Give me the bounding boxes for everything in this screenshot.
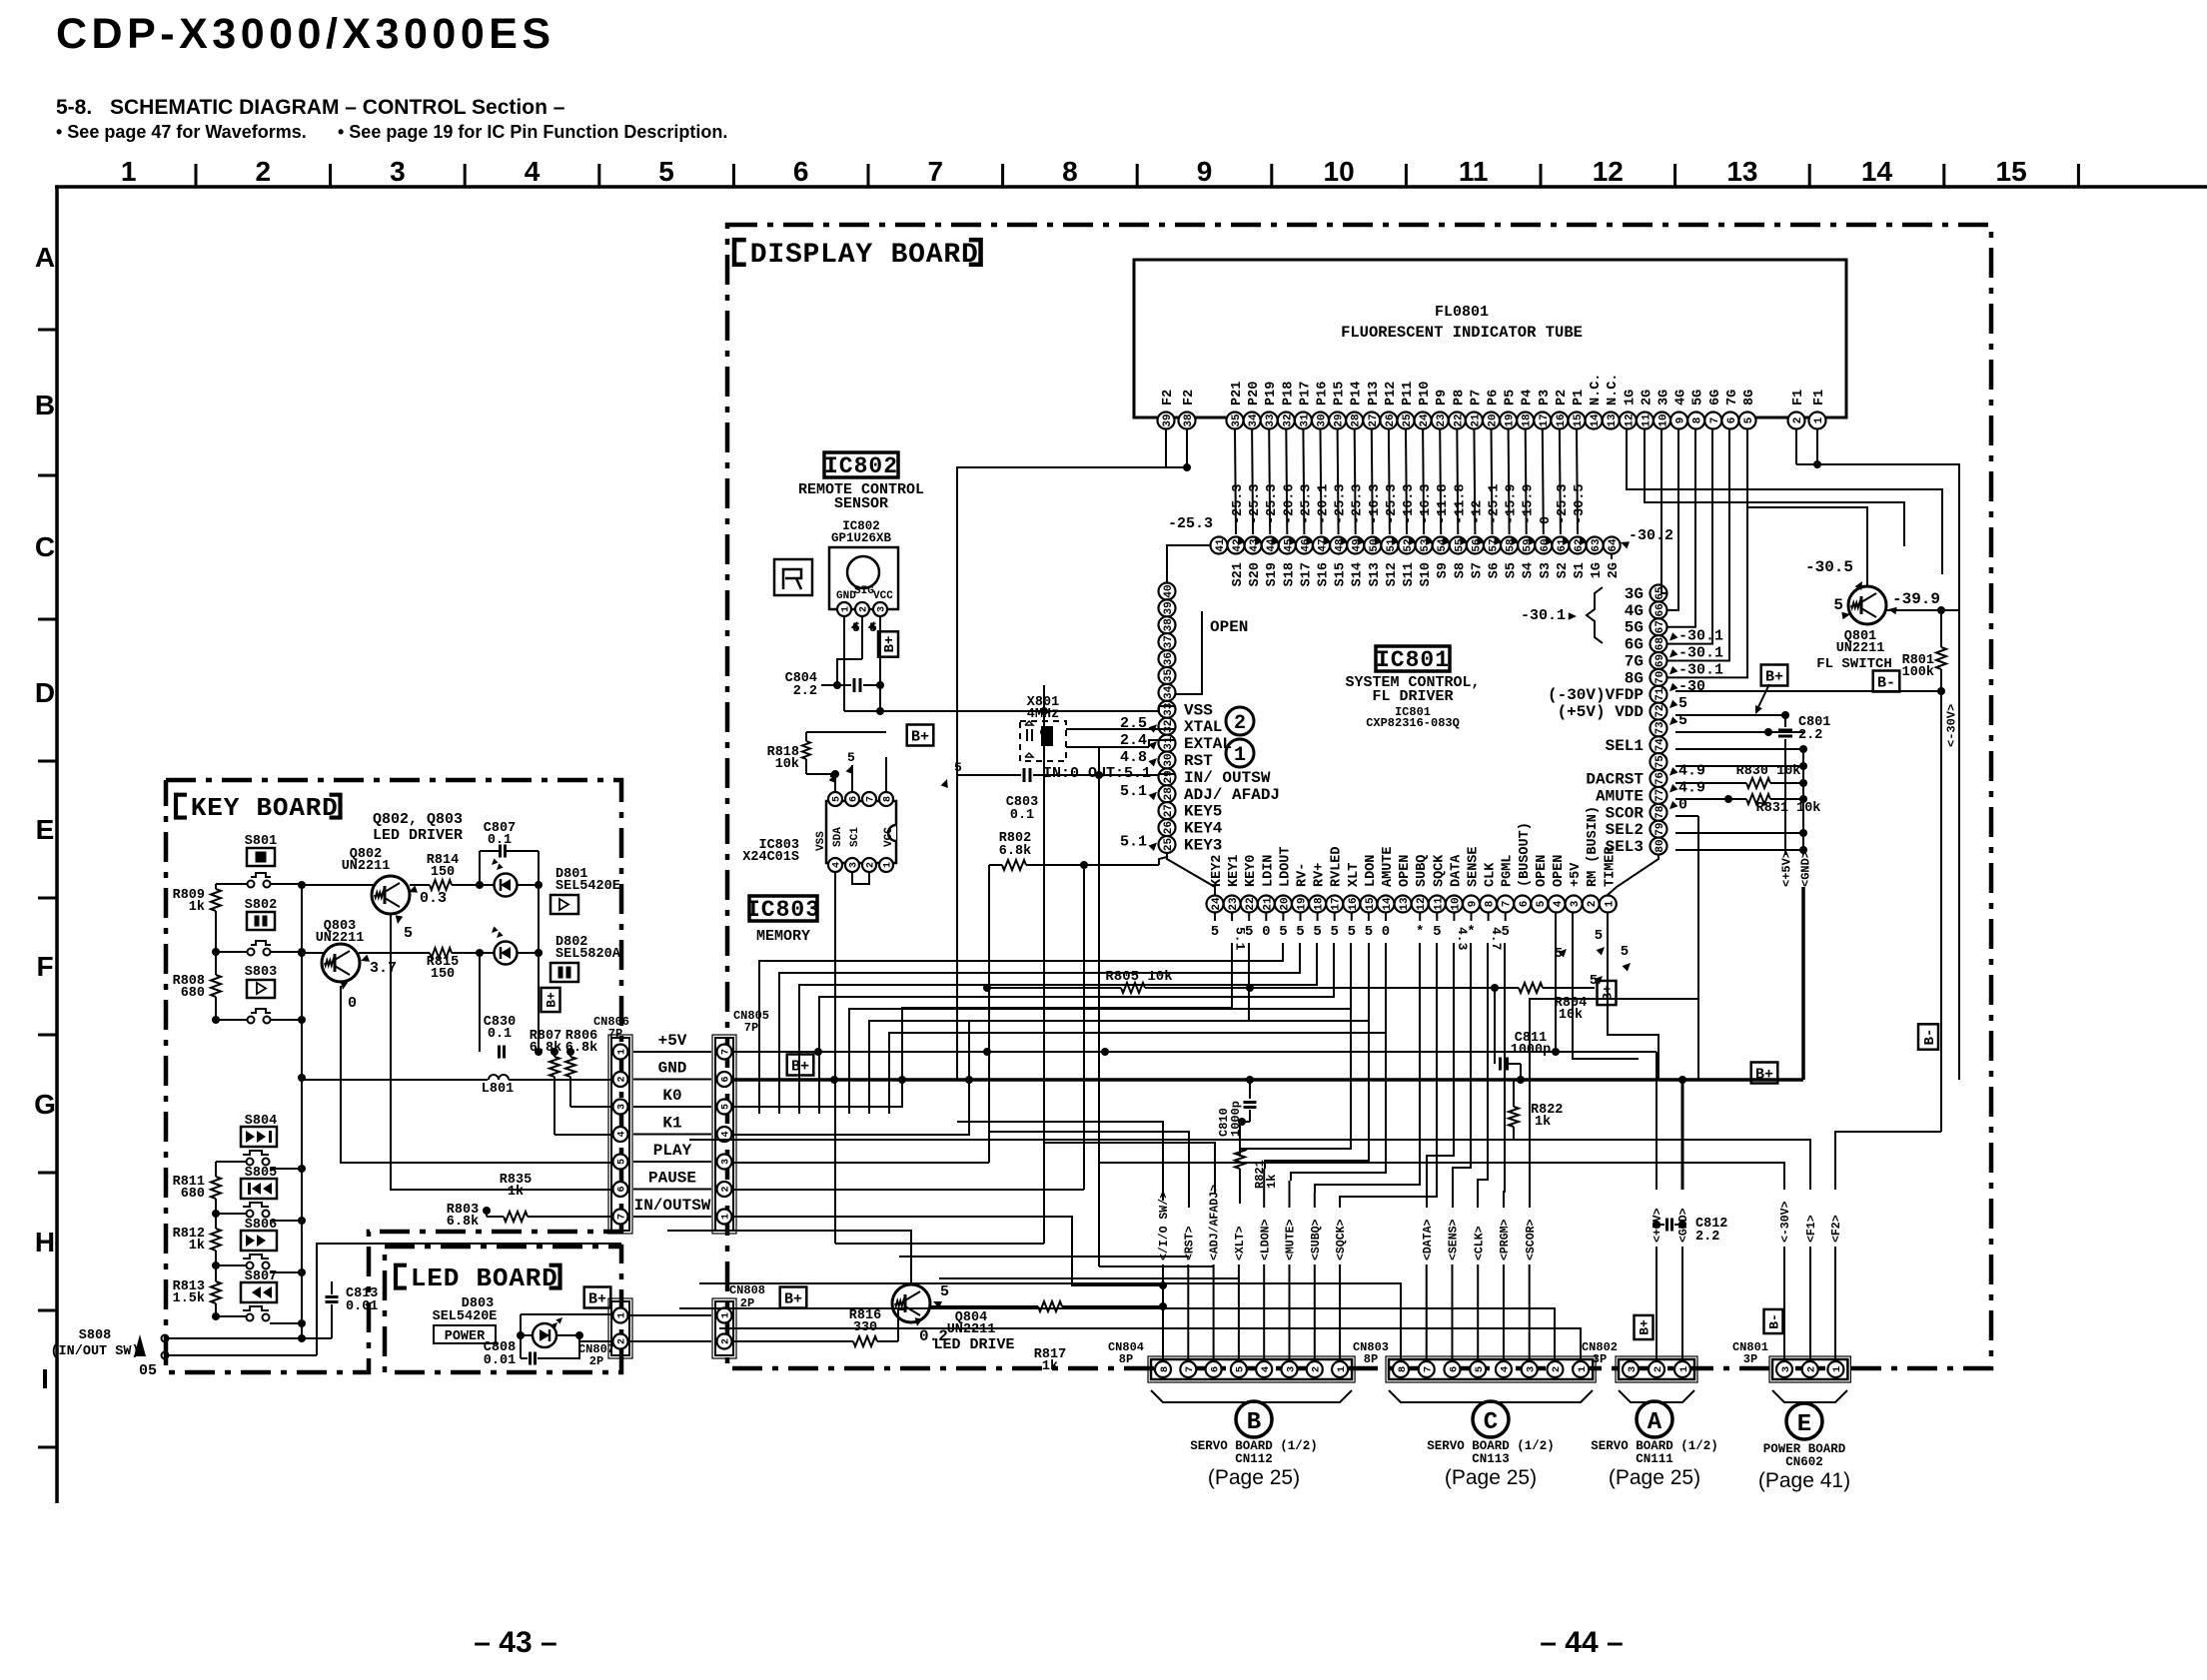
svg-text:-11.8: -11.8 xyxy=(1436,483,1451,524)
svg-text:71: 71 xyxy=(1655,687,1666,701)
svg-text:• See page 19 for IC Pin Funct: • See page 19 for IC Pin Function Descri… xyxy=(338,122,727,142)
B+ label LED board xyxy=(584,1287,611,1308)
wires S808 xyxy=(169,1337,302,1339)
svg-text:(-30V)VFDP: (-30V)VFDP xyxy=(1548,686,1644,704)
svg-text:38: 38 xyxy=(1163,618,1175,632)
svg-text:-11.8: -11.8 xyxy=(1453,483,1468,524)
svg-text:VCC: VCC xyxy=(883,827,895,847)
svg-text:5.1: 5.1 xyxy=(1120,783,1147,800)
B- label above CN801 xyxy=(1764,1309,1783,1333)
svg-text:2: 2 xyxy=(1551,1366,1563,1372)
svg-text:5: 5 xyxy=(1330,924,1338,940)
svg-text:19: 19 xyxy=(1505,414,1517,426)
svg-text:RV+: RV+ xyxy=(1313,863,1328,887)
svg-text:20: 20 xyxy=(1487,414,1499,426)
svg-text:29: 29 xyxy=(1163,770,1175,783)
svg-text:63: 63 xyxy=(1591,538,1603,552)
switch S803 (play) xyxy=(245,965,277,1024)
svg-text:5: 5 xyxy=(1433,924,1441,940)
svg-text:3G: 3G xyxy=(1625,585,1644,603)
svg-text:1G: 1G xyxy=(1623,390,1638,406)
svg-text:10: 10 xyxy=(1450,897,1462,910)
svg-text:31: 31 xyxy=(1163,736,1175,750)
svg-text:F2: F2 xyxy=(1182,390,1197,406)
svg-text:UN2211: UN2211 xyxy=(342,859,391,874)
svg-text:B: B xyxy=(1247,1409,1261,1436)
svg-text:4G: 4G xyxy=(1625,602,1644,620)
svg-text:<F1>: <F1> xyxy=(1805,1215,1818,1243)
svg-text:4: 4 xyxy=(525,156,541,187)
svg-text:5: 5 xyxy=(1279,924,1287,940)
svg-text:1: 1 xyxy=(1604,900,1616,907)
svg-text:-30.1: -30.1 xyxy=(1678,628,1723,645)
wire CN803 pin8/2/1 long runs xyxy=(699,1283,1401,1360)
svg-text:19: 19 xyxy=(1296,897,1308,910)
svg-text:37: 37 xyxy=(1163,635,1175,648)
svg-text:-25.3: -25.3 xyxy=(1231,483,1246,524)
wires IC802 pins down xyxy=(843,616,845,711)
svg-text:3G: 3G xyxy=(1657,390,1672,406)
svg-text:SEL5420E: SEL5420E xyxy=(555,879,620,894)
svg-text:(IN/OUT SW): (IN/OUT SW) xyxy=(50,1344,139,1359)
svg-text:KEY0: KEY0 xyxy=(1244,855,1259,887)
svg-text:32: 32 xyxy=(1163,720,1175,733)
svg-text:5: 5 xyxy=(832,796,843,802)
svg-text:KEY2: KEY2 xyxy=(1210,855,1225,887)
svg-text:-16.3: -16.3 xyxy=(1419,483,1434,524)
svg-text:-16.3: -16.3 xyxy=(1368,483,1383,524)
left border column letters xyxy=(34,187,57,1503)
svg-text:XTAL: XTAL xyxy=(1184,718,1222,736)
svg-text:2: 2 xyxy=(721,1338,732,1344)
connector CN806 7P xyxy=(608,1035,632,1234)
B+ label right xyxy=(1761,665,1788,686)
connector CN808 2P xyxy=(712,1298,736,1358)
wire VFDP -30 line xyxy=(1675,690,1941,692)
wire IC802 gnd run to VSS pin33 xyxy=(844,706,1175,711)
wires FL tube pins to IC801 top pins xyxy=(1235,429,1578,534)
svg-text:-30.1: -30.1 xyxy=(1678,661,1723,678)
wires LED cathode bus xyxy=(479,953,481,1052)
svg-text:8G: 8G xyxy=(1742,390,1757,406)
svg-text:– 44 –: – 44 – xyxy=(1540,1626,1623,1659)
svg-text:24: 24 xyxy=(1419,414,1431,427)
svg-text:1: 1 xyxy=(1577,1366,1589,1372)
svg-text:KEY1: KEY1 xyxy=(1227,855,1242,887)
top ruler line xyxy=(55,156,2207,187)
svg-text:OPEN: OPEN xyxy=(1552,855,1567,887)
svg-text:17: 17 xyxy=(1331,897,1343,910)
circled E power board xyxy=(1786,1403,1822,1439)
svg-text:6.8k: 6.8k xyxy=(447,1215,479,1230)
svg-text:7: 7 xyxy=(1502,901,1514,908)
svg-text:5: 5 xyxy=(1678,695,1687,712)
svg-text:-30.5: -30.5 xyxy=(1573,483,1588,524)
svg-text:PGML: PGML xyxy=(1501,855,1516,887)
KEY BOARD dashed outline xyxy=(166,780,621,1372)
svg-text:8: 8 xyxy=(1692,417,1704,423)
svg-text:0.1: 0.1 xyxy=(1010,808,1034,823)
wire staircase from IC801 pins 20-14 to left xyxy=(759,943,1283,1114)
svg-text:MEMORY: MEMORY xyxy=(756,928,810,945)
svg-text:SEL5420E: SEL5420E xyxy=(433,1309,498,1324)
svg-text:3: 3 xyxy=(877,606,888,612)
svg-text:P18: P18 xyxy=(1281,382,1296,406)
svg-text:8: 8 xyxy=(1159,1366,1171,1372)
svg-text:<+5V>: <+5V> xyxy=(1779,851,1793,887)
svg-text:B+: B+ xyxy=(882,636,898,653)
svg-text:77: 77 xyxy=(1655,789,1666,802)
svg-text:2: 2 xyxy=(1311,1366,1323,1372)
svg-text:SENSOR: SENSOR xyxy=(834,495,888,512)
svg-text:(Page 25): (Page 25) xyxy=(1445,1466,1537,1489)
svg-text:5: 5 xyxy=(1743,417,1755,423)
svg-text:6: 6 xyxy=(849,796,860,802)
svg-text:6: 6 xyxy=(1726,418,1738,424)
svg-text:CN113: CN113 xyxy=(1472,1452,1510,1466)
wires IC803 pins up xyxy=(806,774,835,792)
svg-text:5: 5 xyxy=(847,750,855,765)
svg-text:2: 2 xyxy=(617,1338,628,1344)
wires IC801 right column to rails xyxy=(1675,714,1785,716)
svg-text:SENSE: SENSE xyxy=(1467,846,1482,887)
svg-text:FLUORESCENT INDICATOR TUBE: FLUORESCENT INDICATOR TUBE xyxy=(1341,324,1583,342)
svg-text:P17: P17 xyxy=(1298,382,1313,406)
svg-text:CN602: CN602 xyxy=(1785,1455,1823,1469)
svg-text:CN111: CN111 xyxy=(1636,1452,1673,1466)
svg-text:8G: 8G xyxy=(1625,669,1644,687)
svg-text:LDOUT: LDOUT xyxy=(1278,846,1293,887)
DISPLAY BOARD label xyxy=(734,240,746,265)
svg-text:-16.3: -16.3 xyxy=(1402,483,1417,524)
svg-text:7P: 7P xyxy=(744,1021,758,1035)
svg-text:7G: 7G xyxy=(1625,652,1644,670)
svg-text:2.2: 2.2 xyxy=(1798,728,1822,743)
svg-text:6: 6 xyxy=(1209,1366,1221,1372)
svg-text:5: 5 xyxy=(404,925,413,942)
callout circled 2 xyxy=(1226,707,1254,735)
KEY BOARD label xyxy=(176,795,187,818)
svg-text:KEY4: KEY4 xyxy=(1184,820,1223,838)
svg-text:79: 79 xyxy=(1655,823,1666,836)
svg-text:2G: 2G xyxy=(1607,562,1622,578)
svg-text:<LDON>: <LDON> xyxy=(1259,1219,1272,1260)
svg-text:2: 2 xyxy=(1653,1366,1664,1372)
svg-text:AMUTE: AMUTE xyxy=(1381,846,1396,887)
svg-text:80: 80 xyxy=(1655,839,1666,852)
svg-text:6G: 6G xyxy=(1625,636,1644,654)
svg-text:100k: 100k xyxy=(1902,665,1934,680)
svg-text:S3: S3 xyxy=(1539,562,1554,578)
svg-text:P20: P20 xyxy=(1247,382,1262,406)
svg-text:5: 5 xyxy=(1296,924,1304,940)
IC802 label box xyxy=(824,452,898,477)
svg-text:2: 2 xyxy=(1805,1366,1817,1372)
svg-text:14: 14 xyxy=(1861,156,1893,187)
svg-text:F1: F1 xyxy=(1791,390,1806,406)
wire IN/OUTSW run xyxy=(732,1217,1163,1285)
svg-text:5: 5 xyxy=(1235,1366,1247,1372)
B- label lower xyxy=(1918,1024,1938,1049)
svg-text:5: 5 xyxy=(1595,928,1603,944)
svg-text:IC801: IC801 xyxy=(1376,647,1450,673)
svg-text:1: 1 xyxy=(1831,1366,1843,1372)
svg-text:9: 9 xyxy=(1197,156,1213,187)
wire K1 run xyxy=(732,943,1249,1135)
svg-text:8P: 8P xyxy=(1364,1352,1378,1366)
svg-text:S4: S4 xyxy=(1522,562,1537,578)
svg-text:<ADJ/AFADJ>: <ADJ/AFADJ> xyxy=(1209,1185,1222,1260)
wires LED board xyxy=(520,1314,522,1358)
brace under CN803 xyxy=(1389,1390,1593,1402)
svg-text:B-: B- xyxy=(1922,1029,1938,1046)
svg-text:11: 11 xyxy=(1433,897,1445,911)
svg-text:-30.5: -30.5 xyxy=(1805,558,1853,576)
svg-text:2: 2 xyxy=(1792,418,1804,424)
svg-text:IC802: IC802 xyxy=(824,453,898,479)
svg-text:6G: 6G xyxy=(1708,390,1723,406)
wire IC801 corner pin25 to pin24 xyxy=(1167,853,1215,895)
svg-text:RST: RST xyxy=(1184,752,1213,770)
wire IC801 pin41 corner xyxy=(1167,545,1210,582)
svg-text:S18: S18 xyxy=(1282,562,1297,586)
svg-text:-25.3: -25.3 xyxy=(1334,483,1349,524)
svg-text:OPEN: OPEN xyxy=(1210,618,1248,636)
svg-text:S17: S17 xyxy=(1299,562,1314,586)
svg-text:<-30V>: <-30V> xyxy=(1779,1201,1792,1243)
svg-text:SEL2: SEL2 xyxy=(1606,821,1644,839)
svg-text:<SUBQ>: <SUBQ> xyxy=(1310,1219,1323,1260)
connector CN803 8P xyxy=(1386,1356,1596,1382)
svg-text:-30: -30 xyxy=(1678,678,1705,695)
svg-text:LED DRIVER: LED DRIVER xyxy=(373,827,463,844)
svg-text:1: 1 xyxy=(1234,744,1246,767)
svg-text:SERVO BOARD (1/2): SERVO BOARD (1/2) xyxy=(1427,1439,1555,1453)
svg-text:9: 9 xyxy=(1675,418,1687,424)
svg-text:32: 32 xyxy=(1282,414,1294,426)
svg-text:-25.3: -25.3 xyxy=(1248,483,1263,524)
svg-text:2: 2 xyxy=(1234,712,1246,735)
svg-text:0: 0 xyxy=(1539,516,1554,524)
svg-text:34: 34 xyxy=(1248,414,1260,427)
svg-text:5: 5 xyxy=(1501,924,1509,940)
svg-text:S5: S5 xyxy=(1505,562,1520,578)
svg-text:18: 18 xyxy=(1522,414,1534,427)
svg-text:14: 14 xyxy=(1382,897,1394,911)
wires 1G-8G to IC pins and right rails xyxy=(1627,429,1942,561)
svg-text:PLAY: PLAY xyxy=(653,1142,692,1160)
wire K0 run xyxy=(732,943,1232,1107)
svg-text:34: 34 xyxy=(1163,685,1175,699)
svg-text:5.1: 5.1 xyxy=(1120,834,1147,851)
svg-text:1: 1 xyxy=(1336,1366,1348,1372)
svg-text:OPEN: OPEN xyxy=(1398,855,1413,887)
LED BOARD label xyxy=(396,1265,407,1288)
circled C servo board xyxy=(1473,1401,1509,1437)
LED D803 xyxy=(533,1317,562,1347)
svg-text:L801: L801 xyxy=(482,1082,514,1097)
wire RST route xyxy=(989,1132,1189,1208)
svg-text:S6: S6 xyxy=(1488,562,1503,578)
svg-text:S19: S19 xyxy=(1265,562,1280,586)
svg-text:-30.2: -30.2 xyxy=(1629,527,1673,544)
svg-text:680: 680 xyxy=(181,986,205,1001)
FL tube pins row (39,38 / 35-5 / 2,1) xyxy=(1158,374,1828,429)
svg-text:5G: 5G xyxy=(1691,390,1706,406)
svg-text:11: 11 xyxy=(1459,156,1489,187)
svg-text:-25.3: -25.3 xyxy=(1351,483,1366,524)
svg-text:*: * xyxy=(1416,924,1424,940)
svg-text:-15.9: -15.9 xyxy=(1522,483,1537,524)
svg-text:P2: P2 xyxy=(1555,390,1570,406)
connector CN805 7P xyxy=(712,1035,736,1234)
circled A servo board xyxy=(1637,1401,1672,1437)
svg-text:38: 38 xyxy=(1183,414,1195,427)
svg-text:4G: 4G xyxy=(1674,390,1689,406)
svg-text:5: 5 xyxy=(1833,596,1843,614)
svg-text:DATA: DATA xyxy=(1449,854,1464,887)
wire +5V/RM/TIMER pin drops xyxy=(1555,913,1557,1052)
svg-text:5: 5 xyxy=(1474,1366,1486,1372)
svg-text:E: E xyxy=(36,814,55,845)
remote control symbol xyxy=(774,559,812,595)
svg-text:G: G xyxy=(34,1089,56,1120)
svg-text:10: 10 xyxy=(1324,156,1355,187)
svg-text:GND: GND xyxy=(658,1060,687,1078)
svg-text:5: 5 xyxy=(940,1283,949,1300)
svg-text:7: 7 xyxy=(721,1049,732,1055)
svg-text:S13: S13 xyxy=(1368,562,1383,586)
wire F1 pins xyxy=(1816,429,1818,464)
svg-text:1k: 1k xyxy=(189,900,205,915)
svg-text:POWER: POWER xyxy=(445,1329,486,1344)
svg-text:2: 2 xyxy=(866,862,877,868)
wire I/O SW route xyxy=(957,1122,1163,1201)
svg-text:S15: S15 xyxy=(1334,562,1349,586)
wire Q804 collector up xyxy=(667,1231,911,1284)
svg-text:<SCOR>: <SCOR> xyxy=(1525,1219,1538,1260)
svg-text:2: 2 xyxy=(1587,901,1599,908)
svg-text:0.01: 0.01 xyxy=(346,1299,378,1314)
svg-text:UN2211: UN2211 xyxy=(947,1322,996,1337)
svg-text:67: 67 xyxy=(1655,620,1666,633)
svg-text:CDP-X3000/X3000ES: CDP-X3000/X3000ES xyxy=(56,10,555,58)
svg-text:– 43 –: – 43 – xyxy=(474,1626,556,1659)
connector CN801 3P xyxy=(1769,1356,1850,1382)
svg-text:SIG: SIG xyxy=(854,585,874,597)
switch S801 (stop) xyxy=(245,834,277,888)
svg-text:B-: B- xyxy=(1767,1313,1782,1329)
switch S804 xyxy=(241,1114,277,1166)
svg-text:<PRGM>: <PRGM> xyxy=(1499,1219,1512,1260)
svg-text:CN808: CN808 xyxy=(729,1283,765,1297)
svg-text:1: 1 xyxy=(883,862,894,868)
svg-text:5: 5 xyxy=(1365,924,1373,940)
svg-text:RVLED: RVLED xyxy=(1330,846,1345,887)
svg-text:5: 5 xyxy=(721,1104,732,1110)
svg-text:74: 74 xyxy=(1655,738,1666,752)
svg-text:11: 11 xyxy=(1641,414,1653,427)
keyboard left bus wires xyxy=(215,884,217,889)
svg-text:<RST>: <RST> xyxy=(1183,1226,1196,1260)
svg-text:Q802, Q803: Q802, Q803 xyxy=(373,811,463,828)
svg-text:1: 1 xyxy=(121,156,137,187)
wire lower horizontal bundle xyxy=(835,1243,1044,1245)
svg-text:N.C.: N.C. xyxy=(1589,374,1604,406)
svg-text:<GND>: <GND> xyxy=(1798,851,1812,887)
D802 pause icon box xyxy=(551,963,578,982)
svg-text:A: A xyxy=(35,242,55,273)
B- label right xyxy=(1873,671,1900,692)
svg-text:1: 1 xyxy=(721,1312,732,1318)
svg-text:26: 26 xyxy=(1163,821,1175,834)
svg-text:E: E xyxy=(1797,1411,1811,1438)
svg-text:76: 76 xyxy=(1655,772,1666,785)
svg-text:5G: 5G xyxy=(1625,619,1644,637)
svg-text:P3: P3 xyxy=(1538,390,1553,406)
svg-text:30: 30 xyxy=(1316,414,1328,426)
svg-text:1000p: 1000p xyxy=(1511,1043,1552,1058)
B+ label above CN802 xyxy=(1635,1315,1654,1339)
svg-text:3: 3 xyxy=(390,156,406,187)
svg-text:XLT: XLT xyxy=(1347,863,1362,887)
svg-text:5: 5 xyxy=(1621,944,1629,960)
svg-text:30: 30 xyxy=(1163,753,1175,766)
svg-text:10k: 10k xyxy=(1559,1008,1583,1023)
svg-text:2G: 2G xyxy=(1640,390,1655,406)
svg-text:0.01: 0.01 xyxy=(484,1353,516,1368)
svg-text:-30.1: -30.1 xyxy=(1521,607,1566,624)
svg-text:28: 28 xyxy=(1163,787,1175,801)
svg-text:0.2: 0.2 xyxy=(919,1327,948,1345)
svg-text:15: 15 xyxy=(1996,156,2027,187)
svg-text:4.8: 4.8 xyxy=(1120,749,1147,766)
svg-text:10k: 10k xyxy=(775,757,799,772)
svg-text:ADJ/ AFADJ: ADJ/ AFADJ xyxy=(1184,786,1280,804)
svg-text:S808: S808 xyxy=(79,1328,111,1343)
svg-text:VSS: VSS xyxy=(815,831,827,851)
svg-text:-39.9: -39.9 xyxy=(1892,590,1940,608)
svg-text:16: 16 xyxy=(1556,414,1568,426)
svg-text:0.1: 0.1 xyxy=(488,1027,512,1042)
svg-text:6: 6 xyxy=(617,1186,628,1192)
svg-text:1: 1 xyxy=(617,1312,628,1318)
svg-text:1: 1 xyxy=(721,1214,732,1220)
svg-text:33: 33 xyxy=(1163,702,1175,716)
svg-text:3: 3 xyxy=(1627,1366,1639,1372)
svg-text:<DATA>: <DATA> xyxy=(1422,1219,1435,1260)
svg-text:P15: P15 xyxy=(1333,382,1348,406)
svg-text:27: 27 xyxy=(1368,414,1380,426)
svg-text:S1: S1 xyxy=(1573,562,1588,578)
svg-text:P8: P8 xyxy=(1452,390,1467,406)
svg-text:3: 3 xyxy=(1525,1366,1537,1372)
wire F2 pins left xyxy=(1166,429,1187,467)
wire ADJ/AFADJ route xyxy=(1044,1143,1215,1194)
svg-text:P1: P1 xyxy=(1572,390,1587,406)
svg-text:4: 4 xyxy=(1260,1366,1272,1372)
svg-text:3P: 3P xyxy=(1593,1352,1607,1366)
svg-text:5: 5 xyxy=(1313,924,1321,940)
svg-text:66: 66 xyxy=(1655,603,1666,616)
svg-text:69: 69 xyxy=(1655,654,1666,667)
svg-text:0.3: 0.3 xyxy=(420,890,447,907)
wire GND bus thick xyxy=(732,1078,1803,1082)
wire +5V run xyxy=(732,1051,1656,1053)
svg-text:P13: P13 xyxy=(1367,382,1382,406)
svg-text:X24C01S: X24C01S xyxy=(742,850,799,865)
svg-text:41: 41 xyxy=(1215,538,1227,552)
